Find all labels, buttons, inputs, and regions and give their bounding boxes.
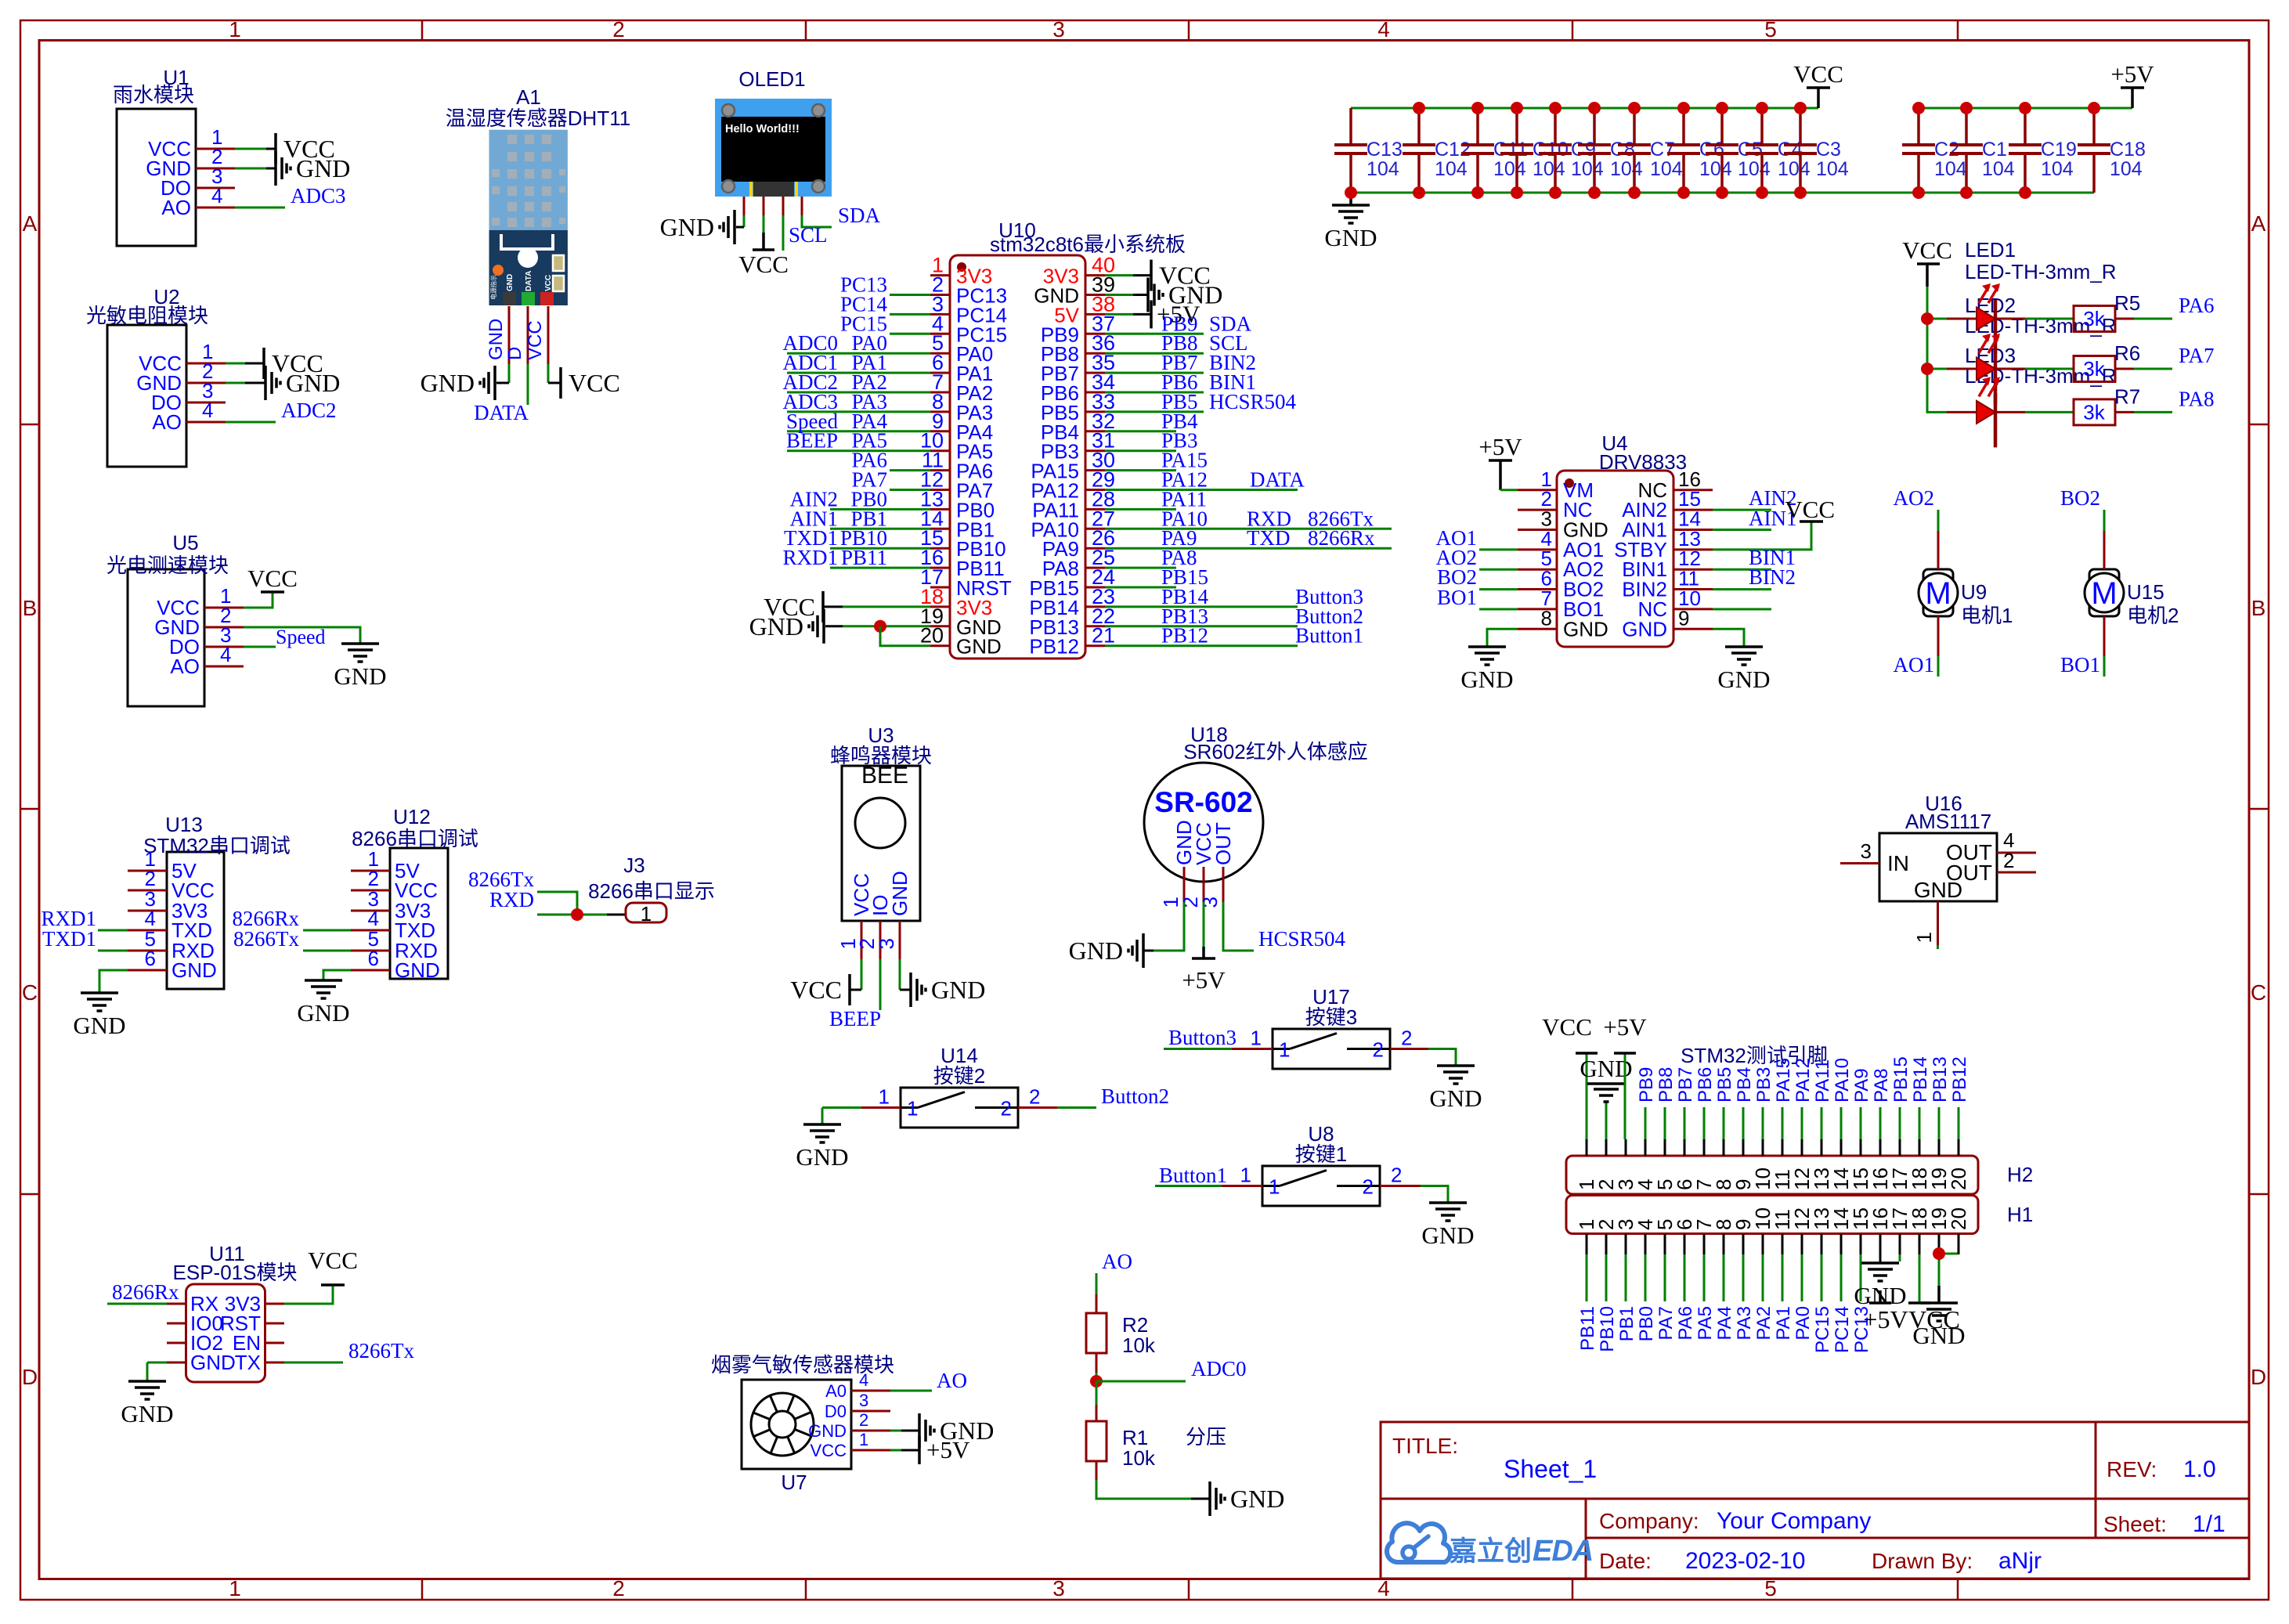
svg-text:U9: U9: [1961, 580, 1987, 604]
capacitor C2 104: [1902, 102, 1967, 199]
wire U9 to AO1: [1937, 616, 1940, 656]
svg-text:PA2: PA2: [1753, 1306, 1775, 1341]
svg-text:ADC3: ADC3: [291, 184, 346, 208]
wire H1 pin18 to VCC: [1919, 1254, 1921, 1303]
wire H1 pin17 stub: [1899, 1254, 1901, 1261]
svg-text:SR-602: SR-602: [1154, 786, 1252, 818]
svg-text:VCC: VCC: [308, 1247, 358, 1274]
ground symbol (U8): [1421, 1203, 1474, 1249]
svg-text:BEEP: BEEP: [786, 429, 838, 453]
svg-text:Button2: Button2: [1101, 1084, 1169, 1108]
capacitor C9 104: [1539, 102, 1604, 199]
power flag +5V (H2): [1603, 1013, 1647, 1053]
wire U10 pin38 5V to +5V: [1105, 313, 1133, 316]
wire H1 pin1 net PB11: [1586, 1254, 1588, 1301]
svg-text:PB0: PB0: [1636, 1306, 1657, 1341]
svg-text:6: 6: [145, 947, 156, 970]
wire U18 OUT net HCSR504: [1223, 902, 1254, 951]
module U18 SR602红外人体感应: [1144, 723, 1368, 908]
svg-text:嘉立创: 嘉立创: [1450, 1536, 1532, 1567]
power flag VCC (H2): [1542, 1013, 1598, 1053]
wire U12 pin4 net 8266Rx: [303, 929, 351, 932]
svg-text:电源指示: 电源指示: [489, 275, 497, 300]
wire U13 pin4 net RXD1: [98, 929, 128, 932]
svg-text:GND: GND: [808, 1421, 847, 1441]
wire AO to R2: [1096, 1273, 1098, 1294]
svg-text:3: 3: [1861, 839, 1872, 863]
svg-text:4: 4: [1377, 1576, 1390, 1601]
svg-text:2: 2: [859, 1410, 868, 1430]
wire U5 pin1 to VCC: [244, 592, 273, 608]
svg-text:stm32c8t6最小系统板: stm32c8t6最小系统板: [990, 233, 1186, 256]
svg-text:M: M: [1925, 576, 1951, 611]
capacitor C4 104: [1746, 102, 1811, 199]
wire H1 pin12 net PA0: [1801, 1254, 1803, 1301]
wire H2 pin2 to GND: [1605, 1102, 1608, 1139]
wire H2 pin17 net PB15: [1899, 1107, 1901, 1139]
wire H1 pin16 to GND: [1879, 1254, 1882, 1263]
svg-text:4: 4: [211, 184, 222, 208]
net +5V rail (cap bank right): [1919, 107, 2132, 110]
svg-text:D: D: [504, 347, 525, 360]
svg-text:20: 20: [1947, 1167, 1970, 1190]
svg-text:+5V: +5V: [1478, 433, 1522, 460]
svg-text:VCC: VCC: [738, 251, 789, 278]
svg-text:TITLE:: TITLE:: [1392, 1434, 1458, 1458]
wire Button3 to U17: [1164, 1048, 1232, 1050]
svg-text:BO1: BO1: [1437, 586, 1477, 609]
svg-text:Sheet_1: Sheet_1: [1504, 1455, 1597, 1483]
svg-text:A: A: [2251, 211, 2266, 236]
svg-text:Hello World!!!: Hello World!!!: [725, 123, 800, 135]
power flag +5V (cap bank): [2110, 60, 2154, 108]
svg-text:C4: C4: [1778, 139, 1803, 161]
wire H2 pin16 net PA8: [1879, 1107, 1882, 1139]
svg-text:PB12: PB12: [1161, 624, 1208, 648]
junction (divider): [1090, 1375, 1103, 1388]
wire U8 pin2 to GND: [1380, 1185, 1421, 1187]
svg-text:H1: H1: [2007, 1203, 2033, 1226]
wire H2 pin3 to +5V: [1624, 1053, 1626, 1139]
wire R1 to GND: [1096, 1461, 1098, 1480]
power flag GND (U10): [749, 609, 824, 644]
svg-text:1: 1: [641, 902, 652, 926]
svg-text:VCC: VCC: [1902, 236, 1952, 264]
svg-text:9: 9: [1678, 606, 1689, 630]
wire U2 pin1 to VCC: [226, 363, 245, 365]
svg-text:按键2: 按键2: [933, 1064, 985, 1088]
svg-text:C3: C3: [1816, 139, 1841, 161]
capacitor C8 104: [1578, 102, 1643, 199]
wire H2 pin8 net PB5: [1723, 1107, 1725, 1139]
wire U11 3V3 to VCC: [284, 1285, 333, 1304]
svg-text:C: C: [22, 980, 38, 1005]
ground symbol (U12): [297, 980, 349, 1027]
svg-text:B: B: [2251, 596, 2266, 620]
connector J3 8266串口显示: [588, 854, 715, 926]
svg-text:104: 104: [1650, 158, 1683, 180]
svg-text:104: 104: [1778, 158, 1811, 180]
svg-text:PA5: PA5: [1695, 1306, 1716, 1341]
wire U4 AO2: [1479, 568, 1518, 571]
wire H1 pin5 net PA7: [1664, 1254, 1666, 1301]
wire U10 pin4 net PC15: [890, 333, 930, 335]
svg-text:104: 104: [1610, 158, 1643, 180]
wire U10 pin2 net PC13: [890, 294, 930, 296]
svg-text:C18: C18: [2110, 139, 2146, 161]
header H1: [1566, 1196, 2033, 1255]
svg-text:GND: GND: [121, 1400, 173, 1427]
wire BO2 to U15: [2103, 510, 2106, 531]
LED LED3 symbol: [1947, 377, 2025, 447]
svg-text:VCC: VCC: [247, 565, 298, 592]
wire U10 pin22 net PB13/Button2: [1105, 625, 1298, 627]
svg-text:GND: GND: [796, 1143, 848, 1171]
svg-text:PA8: PA8: [1871, 1068, 1892, 1103]
svg-text:PB11: PB11: [1577, 1306, 1598, 1351]
wire U10 pin24 net PB15: [1105, 586, 1176, 589]
svg-text:BEE: BEE: [861, 763, 908, 789]
svg-text:SDA: SDA: [838, 204, 881, 227]
wire U10 pin25 net PA8: [1105, 567, 1176, 569]
wire H2 pin14 net PA10: [1840, 1107, 1843, 1139]
wire U4 AIN1: [1713, 529, 1771, 531]
wire U10 pin33 net PB5/HCSR504: [1105, 410, 1204, 413]
svg-text:PA10: PA10: [1832, 1058, 1853, 1103]
svg-text:10k: 10k: [1122, 1333, 1156, 1357]
svg-text:4: 4: [220, 643, 231, 666]
svg-text:BEEP: BEEP: [829, 1007, 881, 1030]
driver U4 DRV8833: [1518, 431, 1713, 647]
wire A1 GND pin: [508, 306, 511, 364]
svg-text:VCC: VCC: [1793, 60, 1843, 88]
power flag GND (divider): [1210, 1481, 1284, 1516]
wire R2 to junction: [1096, 1353, 1098, 1373]
wire U10 pin27 net PA10/RXD/8266Tx: [1105, 528, 1392, 530]
power flag GND (OLED): [660, 210, 735, 244]
svg-text:3: 3: [859, 1391, 868, 1410]
wire U2 pin2 to GND: [226, 382, 245, 384]
svg-text:OUT: OUT: [1211, 822, 1235, 865]
svg-text:按键3: 按键3: [1305, 1005, 1357, 1029]
svg-text:2: 2: [1029, 1085, 1040, 1109]
wire OLED pin1 GND: [743, 197, 746, 215]
svg-text:GND: GND: [297, 999, 349, 1027]
capacitor C1 104: [1950, 102, 2015, 199]
power flag VCC (U4): [1785, 496, 1835, 523]
wire H1 pin15 net PC13: [1860, 1254, 1862, 1301]
wire U11 TX net 8266Tx: [284, 1362, 343, 1364]
wire U14 pin2 net Button2: [1018, 1106, 1057, 1109]
svg-text:PA3: PA3: [1734, 1306, 1755, 1341]
wire R6 net PA7: [2115, 368, 2134, 370]
svg-text:C11: C11: [1493, 139, 1528, 161]
svg-text:104: 104: [1816, 158, 1849, 180]
ground symbol (H1 pin19/20): [1912, 1303, 1965, 1349]
resistor R5 3k: [2074, 291, 2140, 332]
svg-text:BIN2: BIN2: [1749, 565, 1796, 589]
svg-text:DRV8833: DRV8833: [1599, 450, 1687, 474]
wire U4 pin9 GND: [1713, 629, 1744, 647]
junction (U10 GND): [874, 620, 886, 633]
svg-text:IN: IN: [1887, 851, 1909, 875]
svg-text:PA1: PA1: [1773, 1306, 1794, 1341]
svg-text:D0: D0: [825, 1402, 847, 1421]
module U11 ESP-01S模块: [167, 1242, 297, 1382]
svg-text:GND: GND: [931, 976, 985, 1004]
svg-text:20: 20: [1947, 1207, 1970, 1230]
wire H1 pin4 net PB0: [1645, 1254, 1647, 1301]
title block: [1381, 1422, 2249, 1579]
svg-text:C1: C1: [1982, 139, 2007, 161]
svg-text:1: 1: [907, 1097, 918, 1121]
svg-text:104: 104: [1493, 158, 1526, 180]
wire U10 pin10 net PA5/BEEP: [787, 449, 930, 452]
power flag +5V (H1): [1863, 1290, 1908, 1333]
wire H1 pin19/20 to GND: [1938, 1254, 1941, 1261]
svg-text:GND: GND: [1914, 878, 1962, 902]
resistor R6 3k: [2074, 341, 2140, 382]
wire U18 VCC: [1203, 902, 1205, 947]
svg-text:5: 5: [1764, 1576, 1777, 1601]
svg-text:GND: GND: [1563, 617, 1608, 641]
wire H2 pin13 net PA11: [1821, 1107, 1823, 1139]
svg-text:Date:: Date:: [1599, 1549, 1652, 1573]
svg-text:1: 1: [1912, 932, 1936, 943]
motor U15 电机2: [2085, 569, 2179, 627]
button U14 按键2: [879, 1044, 1041, 1128]
svg-text:RXD: RXD: [489, 888, 534, 911]
svg-text:3: 3: [875, 938, 898, 949]
svg-text:PB11: PB11: [841, 546, 887, 569]
wire U4 pin10 NC: [1713, 608, 1771, 610]
wire U10 pin9 net PA4/Speed: [787, 430, 930, 432]
module U7 烟雾气敏传感器模块: [711, 1353, 894, 1494]
module U5 光电测速模块: [107, 531, 244, 706]
svg-text:104: 104: [1533, 158, 1565, 180]
svg-text:C5: C5: [1738, 139, 1763, 161]
junction (H1 pin19): [1933, 1247, 1945, 1260]
net VCC rail (cap bank left): [1351, 107, 1818, 110]
svg-text:PA12: PA12: [1793, 1058, 1814, 1103]
ground symbol (U17): [1429, 1066, 1482, 1112]
junction (LED row1): [1921, 312, 1933, 325]
svg-text:3k: 3k: [2083, 400, 2105, 424]
power flag VCC (cap bank): [1793, 60, 1843, 108]
LED LED2 symbol: [1947, 334, 2025, 404]
wire U10 pin11 net PA6: [890, 469, 930, 471]
svg-text:3: 3: [1052, 17, 1065, 42]
power flag VCC (U1): [276, 133, 335, 164]
svg-text:光敏电阻模块: 光敏电阻模块: [86, 304, 208, 327]
wire U10 pin12 net PA7: [890, 489, 930, 491]
wire H1 pin9 net PA3: [1742, 1254, 1745, 1301]
wire LED2 to R6: [2025, 368, 2074, 370]
capacitor C12 104: [1403, 102, 1471, 199]
svg-text:4: 4: [859, 1370, 868, 1390]
svg-text:GND: GND: [660, 213, 714, 241]
wire U4 AIN2: [1713, 509, 1771, 511]
svg-text:C2: C2: [1934, 139, 1959, 161]
wire U10 pin31 net PB3: [1105, 449, 1176, 452]
power flag GND (A1): [421, 366, 495, 400]
wire U10 pin5 net PA0/ADC0: [787, 352, 930, 355]
ground symbol (U5): [334, 644, 386, 690]
svg-text:GND: GND: [506, 274, 514, 291]
power flag VCC (U10 right): [1151, 260, 1211, 291]
svg-text:PA7: PA7: [1655, 1306, 1677, 1341]
wire H2 pin6 net PB7: [1684, 1107, 1686, 1139]
wire U14 pin1 to GND: [861, 1106, 901, 1109]
svg-text:PB5: PB5: [1714, 1067, 1735, 1103]
svg-text:+5V: +5V: [2110, 60, 2154, 88]
wire U1 pin1 to VCC: [235, 148, 266, 150]
power flag GND (U10 right): [1148, 278, 1222, 312]
svg-text:J3: J3: [623, 854, 644, 877]
svg-text:REV:: REV:: [2107, 1457, 2157, 1481]
wire U10 pin26 net PA9/TXD/8266Rx: [1105, 547, 1392, 550]
wire H2 pin1 to VCC: [1586, 1053, 1588, 1139]
capacitor C6 104: [1667, 102, 1732, 199]
power flag VCC (U11): [308, 1247, 358, 1285]
svg-text:C7: C7: [1650, 139, 1675, 161]
svg-text:H2: H2: [2007, 1163, 2033, 1186]
wire U4 BIN1: [1713, 568, 1771, 571]
svg-text:PA11: PA11: [1812, 1059, 1833, 1103]
svg-text:U5: U5: [172, 531, 198, 554]
svg-text:Button1: Button1: [1295, 624, 1363, 648]
svg-text:Company:: Company:: [1599, 1509, 1699, 1533]
svg-text:1: 1: [859, 1430, 868, 1449]
module U12 8266串口调试: [351, 805, 478, 982]
svg-text:R5: R5: [2114, 291, 2140, 315]
wire U10 pin20 GND: [880, 626, 930, 646]
svg-text:aNjr: aNjr: [1998, 1548, 2042, 1574]
svg-text:GND: GND: [1912, 1322, 1965, 1349]
svg-text:10k: 10k: [1122, 1446, 1156, 1470]
power flag VCC (U3): [790, 974, 850, 1005]
wire U18 GND: [1154, 902, 1184, 951]
capacitor C13 104: [1334, 108, 1403, 199]
svg-text:GND: GND: [1069, 937, 1123, 965]
capacitor C3 104: [1784, 102, 1849, 199]
wire H2 pin7 net PB6: [1703, 1107, 1706, 1139]
svg-text:GND: GND: [956, 635, 1002, 659]
wire H2 pin15 net PA9: [1860, 1107, 1862, 1139]
wire U10 pin39 GND: [1105, 294, 1133, 296]
wire U10 pin16 net PB11/RXD1: [830, 567, 930, 569]
wire U10 pin36 net PB8/SCL: [1105, 352, 1204, 355]
module U1 雨水模块: [113, 66, 235, 246]
wire U10 pin35 net PB7/BIN2: [1105, 372, 1204, 374]
svg-text:PB13: PB13: [1930, 1056, 1951, 1103]
svg-text:PA8: PA8: [2179, 387, 2215, 410]
svg-text:雨水模块: 雨水模块: [113, 83, 194, 106]
wire OLED pin4 net SDA: [801, 197, 803, 215]
wire U12 pin5 net 8266Tx: [303, 950, 351, 952]
wire U10 pin29 net PA12/DATA: [1105, 489, 1298, 491]
wire U3 VCC: [861, 959, 863, 990]
sensor A1 温湿度传感器DHT11: [446, 85, 630, 305]
svg-text:VCC: VCC: [569, 369, 620, 397]
svg-text:8266Tx: 8266Tx: [233, 927, 299, 951]
wire U10 pin18 3V3 to VCC: [843, 605, 930, 608]
svg-text:+5V: +5V: [926, 1436, 970, 1463]
svg-text:LED1: LED1: [1965, 238, 2016, 262]
svg-text:A: A: [23, 211, 38, 236]
svg-text:GND: GND: [73, 1012, 125, 1039]
svg-text:2: 2: [1401, 1027, 1412, 1050]
junction (J3 wires): [571, 908, 583, 921]
svg-text:HCSR504: HCSR504: [1258, 927, 1346, 951]
module U2 光敏电阻模块: [86, 285, 226, 467]
svg-text:Sheet:: Sheet:: [2103, 1512, 2167, 1536]
svg-text:DATA: DATA: [1250, 468, 1305, 492]
svg-text:104: 104: [1435, 158, 1468, 180]
wire RXD to J3: [537, 914, 607, 916]
wire U10 pin13 net PB0/AIN2: [830, 508, 930, 511]
svg-text:Drawn By:: Drawn By:: [1872, 1549, 1973, 1573]
wire U10 pin34 net PB6/BIN1: [1105, 392, 1204, 394]
svg-text:GND: GND: [334, 662, 386, 690]
wire H2 pin5 net PB8: [1664, 1107, 1666, 1139]
svg-text:104: 104: [2110, 158, 2143, 180]
svg-text:GND: GND: [888, 871, 912, 916]
svg-text:GND: GND: [171, 958, 217, 982]
wire U4 BO1: [1479, 608, 1518, 610]
svg-text:Button1: Button1: [1159, 1164, 1227, 1187]
svg-text:2: 2: [612, 17, 625, 42]
wire H1 pin14 net PC14: [1840, 1254, 1843, 1301]
svg-text:VCC: VCC: [811, 1441, 847, 1460]
svg-text:LED-TH-3mm_R: LED-TH-3mm_R: [1965, 260, 2117, 283]
power flag +5V (U10 right): [1151, 300, 1200, 328]
junction (LED row2): [1921, 363, 1933, 375]
svg-text:AO1: AO1: [1894, 653, 1935, 677]
wire U7 A0 net AO: [890, 1390, 932, 1392]
wire U10 pin3 net PC14: [890, 313, 930, 316]
power flag GND (U2): [265, 366, 340, 400]
power flag GND (U18): [1069, 933, 1143, 968]
svg-text:PC15: PC15: [1812, 1306, 1833, 1353]
svg-text:8266串口显示: 8266串口显示: [588, 879, 715, 903]
svg-text:OLED1: OLED1: [738, 67, 805, 91]
svg-text:PB7: PB7: [1675, 1067, 1696, 1103]
svg-text:B: B: [23, 596, 38, 620]
svg-text:C13: C13: [1367, 139, 1403, 161]
wire R5 net PA6: [2115, 318, 2134, 320]
svg-text:104: 104: [2041, 158, 2074, 180]
svg-text:2: 2: [1363, 1175, 1374, 1199]
svg-text:3k: 3k: [2083, 357, 2105, 381]
svg-text:GND: GND: [749, 612, 803, 641]
svg-text:GND: GND: [1421, 1222, 1474, 1249]
svg-text:R6: R6: [2114, 341, 2140, 365]
svg-text:AMS1117: AMS1117: [1905, 810, 1991, 833]
wire U10 pin37 net PB9/SDA: [1105, 333, 1204, 335]
svg-text:PB12: PB12: [1029, 635, 1079, 659]
svg-text:RXD1: RXD1: [782, 546, 838, 569]
svg-text:+5V: +5V: [1863, 1305, 1908, 1333]
svg-text:AO: AO: [161, 196, 191, 219]
svg-text:8266Tx: 8266Tx: [348, 1339, 414, 1362]
power flag VCC (A1): [561, 367, 620, 399]
svg-text:VCC: VCC: [1785, 496, 1835, 523]
svg-text:3k: 3k: [2083, 307, 2105, 330]
wire H2 pin9 net PB4: [1742, 1107, 1745, 1139]
svg-text:PA7: PA7: [2179, 344, 2215, 367]
wire H2 pin19 net PB13: [1938, 1107, 1941, 1139]
